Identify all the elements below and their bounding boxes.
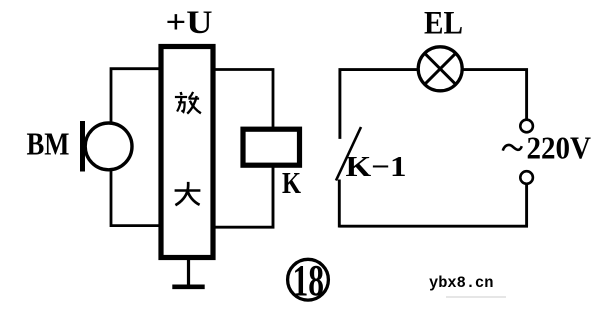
svg-text:BM: BM: [27, 126, 70, 162]
microphone BM diaphragm bar: [80, 121, 85, 172]
wire: lamp right lead to upper 220V terminal: [462, 70, 526, 119]
amplifier block U1 (放大): [161, 47, 213, 258]
switch K-1 blade: [336, 127, 361, 181]
relay coil K box: [243, 129, 300, 165]
wire: relay bottom to amp right pin: [216, 167, 274, 227]
amplifier label 大: [175, 182, 201, 205]
svg-text:EL: EL: [424, 6, 463, 42]
svg-text:18: 18: [293, 256, 325, 305]
watermark underline: [446, 296, 506, 298]
wire: lamp left lead and switch upper lead: [340, 70, 419, 139]
terminal: upper 220V circle: [520, 120, 533, 133]
ground bar: [172, 284, 204, 289]
wire: microphone bottom to amp left pin: [111, 171, 159, 226]
svg-text:220V: 220V: [527, 130, 592, 166]
wire: amp right pin to relay top: [216, 70, 274, 128]
label ~220V: [503, 130, 591, 166]
microphone BM circle: [85, 123, 132, 170]
amplifier label 放: [175, 92, 201, 114]
terminal: lower 220V circle: [520, 171, 533, 184]
wire: bottom rail: [339, 225, 528, 228]
wire: lower terminal down to bottom rail: [525, 184, 528, 226]
ground stem: [187, 258, 190, 287]
svg-text:K: K: [282, 165, 301, 200]
figure number circle: [288, 259, 329, 300]
svg-text:ybx8.cn: ybx8.cn: [429, 274, 494, 292]
svg-text:+U: +U: [166, 5, 213, 41]
wire: amp left pin to microphone top: [111, 69, 159, 122]
svg-text:K−1: K−1: [346, 151, 407, 183]
lamp EL circle: [418, 47, 462, 91]
lamp EL cross: [425, 53, 456, 84]
wire: switch lower lead: [338, 180, 341, 228]
